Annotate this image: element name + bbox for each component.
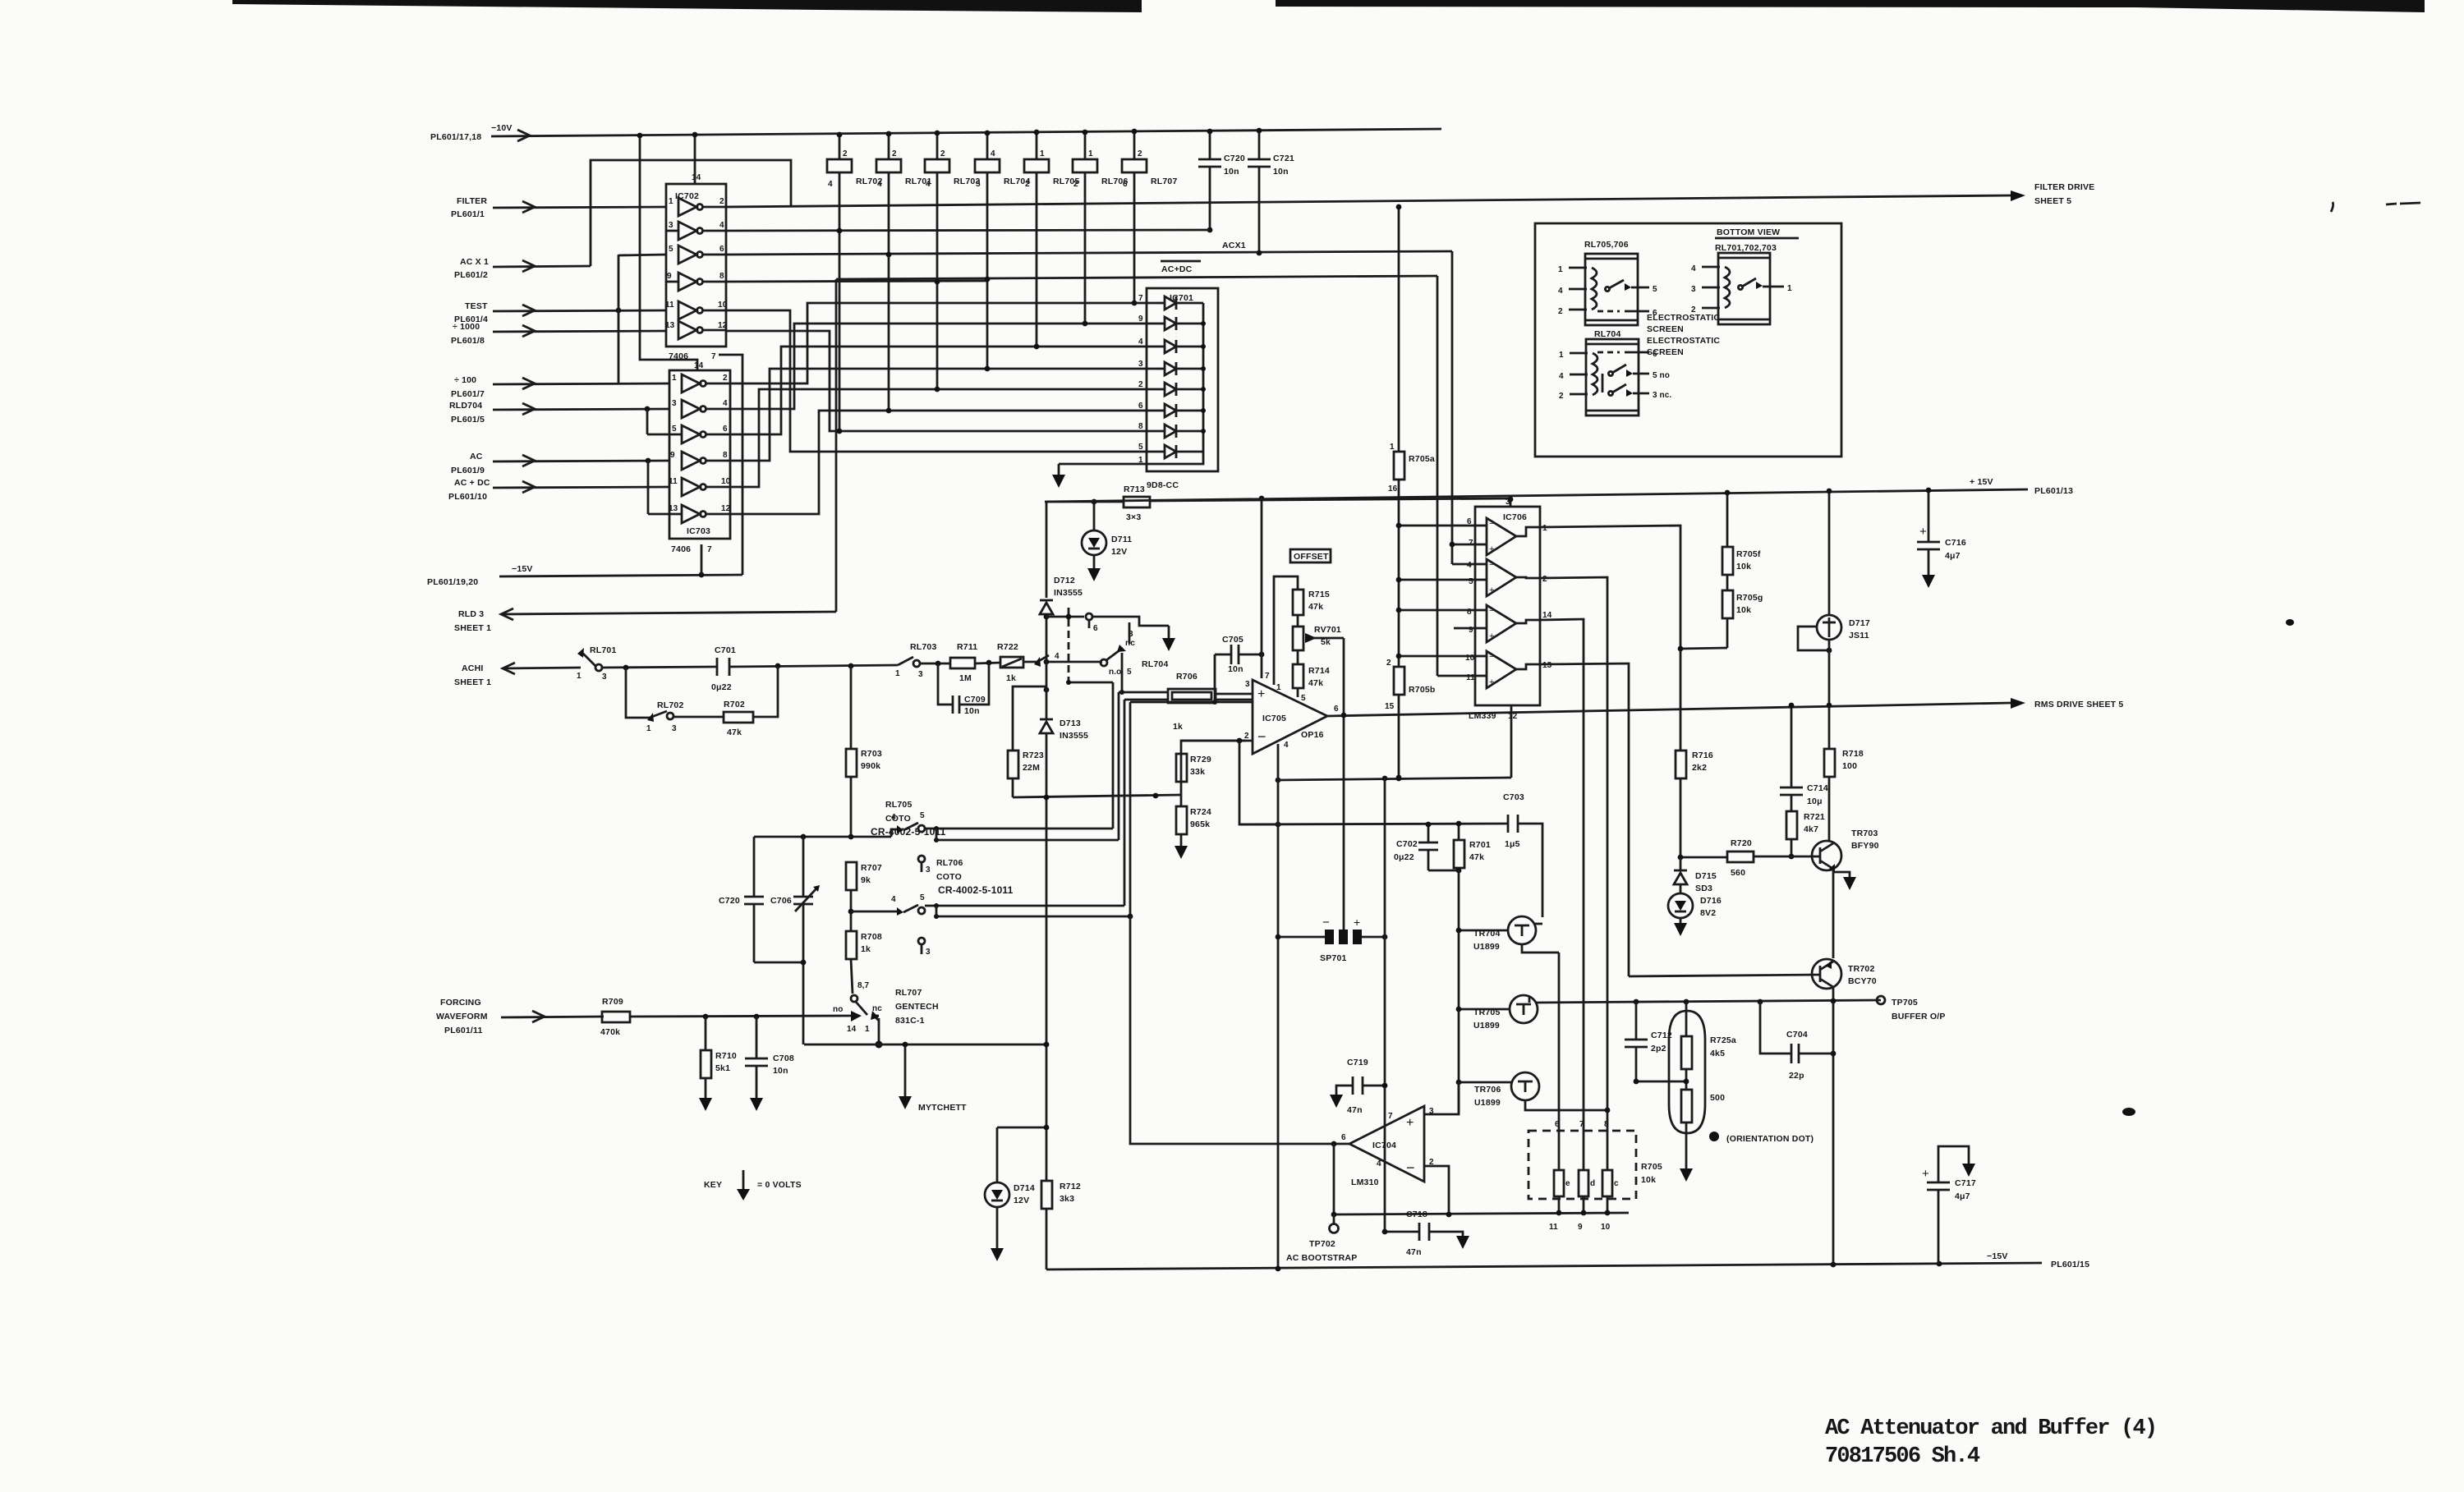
svg-text:7: 7 [707,545,712,554]
wire IC703 pin7 drop [701,544,703,575]
ground arrow TR706 source line [1605,1108,1611,1113]
svg-text:OFFSET: OFFSET [1294,552,1329,562]
node FILTER DRIVE SHEET 5 [2034,182,2094,206]
svg-text:14: 14 [694,361,704,370]
svg-text:1k: 1k [1173,722,1183,732]
relay switch RL706 [851,893,1130,957]
svg-text:TR706: TR706 [1474,1085,1501,1095]
svg-text:4: 4 [991,149,995,158]
wire IC706 out1 drop [1540,526,1680,751]
wire IC703 out12 staircase [730,411,1156,514]
svg-text:TP702: TP702 [1309,1239,1335,1249]
node label ELECTROSTATIC SCREEN x2 [1647,313,1720,357]
svg-text:5: 5 [672,425,677,434]
svg-text:CR-4002-5-1011: CR-4002-5-1011 [938,884,1014,896]
inverter IC703a [672,374,730,393]
svg-text:D715: D715 [1695,871,1717,881]
svg-text:12V: 12V [1014,1196,1029,1205]
svg-text:47k: 47k [1469,852,1484,862]
svg-text:12: 12 [718,321,728,330]
svg-text:7: 7 [1469,539,1473,548]
wire bus B1 (IC702 out4 to C720, RL702) [726,230,1210,231]
svg-text:7: 7 [1265,672,1270,681]
node label BOTTOM VIEW [1715,227,1799,253]
switch RL703 [895,642,937,679]
inverter IC702e [665,301,728,319]
wire ACHI line [503,668,581,668]
resistor R720 560 [1678,838,1811,878]
transistor TR702 BCY70 [1629,959,1877,989]
capacitor C703 1u5 [1503,792,1542,917]
resistor R705d [1579,1131,1595,1215]
arrowhead -10V [517,130,530,141]
capacitor C701 [711,645,736,692]
junction vertical main node [1044,659,1050,665]
node title block text [1825,1416,2156,1469]
svg-text:R720: R720 [1731,838,1752,848]
svg-text:C703: C703 [1503,792,1524,802]
wire +15V feed left segment [1046,501,1124,503]
junction RL707 pole node [876,1041,883,1049]
svg-text:PL601/10: PL601/10 [448,492,487,502]
switch RL704 [1101,622,1169,677]
svg-text:8: 8 [1138,422,1143,431]
svg-text:RL705,706: RL705,706 [1584,240,1629,250]
svg-text:10k: 10k [1641,1175,1656,1185]
svg-text:RL702: RL702 [657,700,684,710]
svg-text:TR705: TR705 [1473,1008,1501,1017]
test point TP702 AC BOOTSTRAP [1286,1214,1357,1263]
svg-text:1k: 1k [1006,673,1016,683]
wire twin pair into R706 [1119,691,1168,694]
svg-text:MYTCHETT: MYTCHETT [918,1103,967,1113]
wire IC704 pin6 line [1130,1141,1349,1144]
svg-text:5 no: 5 no [1653,371,1670,380]
svg-text:22M: 22M [1023,763,1040,773]
svg-text:+: + [1489,631,1494,641]
fet TR705 U1899 [1459,995,1538,1031]
svg-text:AC: AC [470,452,483,461]
svg-text:33k: 33k [1190,767,1205,777]
junction C708 tap [754,1014,760,1020]
wire RLD3 line [501,612,836,614]
resistor R702 [673,666,778,737]
svg-text:13: 13 [665,321,675,330]
junction R710 tap [703,1014,709,1020]
svg-text:6: 6 [723,425,728,434]
wire TR702 emitter down to -15V rail [1832,987,1835,1265]
resistor R722 (fusible) [975,642,1037,683]
wire TEST input [493,310,666,311]
resistor R707 9k [846,862,882,931]
svg-text:R705f: R705f [1736,549,1761,559]
wire IC703 out2 staircase [730,303,1156,383]
svg-text:47n: 47n [1406,1247,1422,1257]
wire RL704 actuation dash line [1068,608,1070,682]
junction RL702 branch left [623,665,629,671]
svg-text:ACHI: ACHI [462,663,483,673]
svg-text:= 0 VOLTS: = 0 VOLTS [757,1180,802,1190]
wire feedback node y1004 to C703/C702 [1239,824,1508,824]
arrowhead RMS DRIVE [2011,698,2025,709]
svg-text:c: c [1614,1179,1619,1188]
svg-text:÷ 100: ÷ 100 [454,375,476,385]
relay package RL701,702,703 detail [1691,253,1792,324]
wire IC705 pin2 input [1181,740,1253,742]
svg-text:9: 9 [670,451,675,460]
wire D714 top link [997,1127,1046,1129]
relay coil RL705 [1024,130,1080,347]
svg-text:U1899: U1899 [1473,942,1500,952]
svg-text:TP705: TP705 [1892,998,1918,1008]
svg-text:RL701,702,703: RL701,702,703 [1715,243,1777,253]
svg-text:+: + [1406,1116,1414,1130]
svg-text:7: 7 [1138,294,1143,303]
relay coil RL701 [876,131,932,411]
wire C702/R701 bottom join [1428,870,1459,872]
node RLD704 PL601/5 input [449,401,485,425]
svg-text:3: 3 [602,673,607,682]
svg-text:9k: 9k [861,875,871,885]
svg-text:RMS DRIVE SHEET 5: RMS DRIVE SHEET 5 [2034,700,2123,709]
svg-text:R724: R724 [1190,807,1211,817]
junction RL702 branch right [775,663,781,669]
resistor R715 47k [1293,590,1330,627]
diode IC701-7 pin8 [1138,422,1206,438]
svg-text:R725a: R725a [1710,1035,1736,1045]
wire C720 bottom link [754,962,803,964]
svg-text:2: 2 [892,149,897,158]
svg-text:1: 1 [1390,443,1395,452]
arrowhead RLD704 [522,403,535,415]
svg-text:2: 2 [843,149,848,158]
wire FORCING line [501,1017,604,1017]
svg-text:2: 2 [1244,732,1249,741]
svg-text:11: 11 [669,477,678,486]
svg-text:3: 3 [1245,680,1250,689]
node ACHI SHEET 1 [454,663,491,687]
switch RL701 [577,645,617,682]
resistor R725 500 [1680,1090,1725,1182]
svg-text:4: 4 [1691,264,1696,273]
svg-text:PL601/19,20: PL601/19,20 [427,577,478,587]
svg-text:R712: R712 [1060,1182,1081,1191]
svg-text:+: + [1354,916,1360,929]
svg-text:RL706: RL706 [936,858,963,868]
svg-text:47k: 47k [1308,602,1323,612]
svg-text:R729: R729 [1190,755,1211,764]
resistor R711 [920,642,977,683]
junction IC704 output node [1331,1141,1337,1147]
capacitor C712 2p2 [1625,1002,1672,1081]
scan artifact top bar right [1276,0,2425,12]
svg-text:R718: R718 [1842,749,1864,759]
wire twin pair R706 to IC705 + [1216,693,1253,696]
comparator IC706a [1467,517,1547,555]
svg-text:−: − [1489,606,1494,616]
inverter IC703b [672,399,730,418]
wire TR703 emitter to TR702 collector [1832,869,1835,958]
svg-text:9: 9 [1138,314,1143,324]
svg-text:7406: 7406 [671,544,691,554]
svg-text:1: 1 [1542,524,1547,533]
svg-text:6: 6 [1341,1133,1346,1142]
junction feedback node at C703 left [1456,821,1462,827]
wire SP701 right to C719 column [1362,936,1385,939]
arrowhead AC+DC [522,481,535,493]
arrowhead AC X 1 [522,260,535,272]
svg-text:R705g: R705g [1736,593,1763,603]
svg-text:SHEET 1: SHEET 1 [454,677,491,687]
svg-text:FILTER DRIVE: FILTER DRIVE [2034,182,2094,192]
svg-text:PL601/1: PL601/1 [451,209,485,219]
wire TEST branch vertical [618,255,620,383]
wire IC705 output to RMS DRIVE [1327,703,2011,716]
wire RL704 no5 drop (twin feed) [1121,653,1124,692]
svg-text:+: + [1257,687,1265,701]
wire IC703 out6 staircase [730,347,1156,434]
svg-text:IC706: IC706 [1503,512,1527,522]
arrowhead divide-100 [522,378,535,389]
svg-text:10k: 10k [1736,562,1751,572]
resistor R713 3k3 (in +15V feed) [1124,484,1150,522]
svg-text:10: 10 [721,477,731,486]
junction -15V to IC703 pin7 [699,572,705,578]
diode IC701-1 pin7 [1138,294,1203,310]
junction AC branch [646,458,651,464]
svg-text:U1899: U1899 [1474,1098,1501,1108]
node +15V PL601/13 [1970,477,2073,496]
wire IC704 pin2 feedback loop [1424,1166,1449,1214]
svg-text:BOTTOM VIEW: BOTTOM VIEW [1717,227,1780,237]
svg-text:47k: 47k [727,728,742,737]
svg-text:R715: R715 [1308,590,1330,599]
svg-text:SCREEN: SCREEN [1647,324,1684,334]
node RLD 3 SHEET 1 output [454,609,491,633]
junction D711 tap [1092,499,1097,505]
svg-text:R705a: R705a [1409,454,1435,464]
svg-text:5: 5 [1138,443,1143,452]
node AC X 1 PL601/2 input [454,257,489,280]
svg-text:R721: R721 [1804,812,1825,822]
svg-text:4: 4 [1284,741,1289,750]
wire RLD704 to pin5 [646,409,649,434]
wire IC702 pin14 drop from -10V rail [694,135,696,184]
svg-text:(ORIENTATION DOT): (ORIENTATION DOT) [1726,1134,1814,1144]
svg-text:16: 16 [1388,484,1398,494]
wire IC703 out8 staircase [730,369,1156,461]
svg-text:FORCING: FORCING [440,998,481,1008]
inverter IC703e [669,477,731,496]
svg-text:R701: R701 [1469,840,1491,850]
wire RV701 wiper column down through IC705 output to SP701 [1343,638,1345,930]
svg-text:PL601/17,18: PL601/17,18 [430,132,481,142]
wire +15V feed right of R713 [1150,498,1510,501]
svg-text:C719: C719 [1347,1058,1368,1067]
junction R703 tap [848,663,854,669]
svg-text:6: 6 [1334,705,1339,714]
junction TEST branch [616,308,622,314]
svg-text:PL601/8: PL601/8 [451,336,485,346]
wire C701 to RL703 [729,665,898,667]
resistor R729 33k [1176,741,1246,795]
capacitor C719 47n [1330,778,1387,1232]
node -15V PL601/15 [1987,1251,2089,1269]
svg-text:7: 7 [1579,1120,1584,1129]
svg-text:5: 5 [976,180,981,189]
relay coil RL706 [1073,130,1129,324]
svg-text:−: − [1322,916,1330,930]
wire FILTER DRIVE long line [726,195,2011,207]
wire IC702 pin7 riser [719,355,742,575]
svg-text:2p2: 2p2 [1651,1044,1666,1054]
svg-text:1: 1 [1276,683,1281,692]
comparator IC706b [1467,559,1547,596]
wire divide-1000 input [493,331,666,332]
svg-text:−10V: −10V [491,123,513,133]
capacitor C709 (parallel R711) [938,663,989,716]
svg-text:9: 9 [1578,1223,1583,1232]
capacitor C717 4u7 [1922,1146,1976,1264]
resistor R721 4k7 [1786,811,1825,859]
svg-text:C720: C720 [719,896,740,906]
junction dots on -10V rail at IC drops [637,133,643,139]
svg-text:10: 10 [718,301,728,310]
svg-text:1: 1 [895,669,900,678]
diode array IC701 9D8-CC [1147,288,1218,490]
scan mark near right margin [2331,202,2333,212]
diode D716 zener 8V2 [1668,884,1722,936]
svg-text:10n: 10n [1224,167,1239,177]
svg-text:5: 5 [1653,285,1657,294]
diode D713 IN3555 [1040,662,1088,1269]
comparator IC706d [1465,651,1552,688]
wire AC branch to pin13 [647,461,650,514]
resistor R705f 10k [1722,490,1761,575]
svg-text:7: 7 [711,352,716,361]
wire SP701 left to vertical [1278,936,1325,939]
arrowhead AC [522,455,535,466]
node FILTER PL601/1 input [451,196,487,219]
wire IC706 out13 drop to TR702 base [1540,663,1629,976]
relay coil RL707 [1122,129,1178,303]
svg-text:10n: 10n [1273,167,1289,177]
wire third input line under R706 [1130,701,1252,704]
resistor R712 3k3 [1041,1181,1081,1209]
svg-text:TR702: TR702 [1848,964,1875,974]
svg-text:1: 1 [1558,265,1563,274]
node label RL706 COTO [936,858,1014,896]
diode D715 SD3 [1674,857,1717,893]
wire C709 bottom loop to R723 branch [1013,686,1046,705]
wire C720/C706 top link [754,836,851,838]
svg-text:−: − [1489,652,1494,662]
svg-text:5k1: 5k1 [715,1063,730,1073]
wire pole node to R712 column [879,1044,1046,1046]
svg-text:PL601/15: PL601/15 [2051,1260,2089,1269]
svg-text:+: + [1922,1167,1929,1181]
wire twin verticals to RL706 contacts [1124,700,1126,906]
svg-text:C705: C705 [1222,635,1243,645]
transistor TR703 BFY90 [1811,829,1879,890]
svg-text:2: 2 [1691,305,1696,314]
resistor R709 [600,997,630,1037]
resistor R703 990k [846,666,882,837]
svg-text:d: d [1590,1179,1595,1188]
svg-text:−: − [1406,1159,1415,1176]
svg-text:47n: 47n [1347,1105,1363,1115]
svg-text:C720: C720 [1224,154,1245,163]
node label OFFSET [1290,549,1331,562]
wire R709 to RL707 [630,1016,851,1017]
diode IC701-4 pin3 [1138,360,1206,375]
svg-text:C708: C708 [773,1054,794,1063]
capacitor C720 (rail decoupling) [1198,129,1245,233]
svg-text:AC+DC: AC+DC [1161,264,1193,274]
wire RLD704 input [493,409,669,410]
resistor R710 5k1 [699,1017,737,1111]
arrowhead divide-1000 [522,325,535,337]
diode D711 zener 12V [1082,502,1132,581]
wire IC706 out14 drop [1540,619,1584,1131]
svg-text:5: 5 [920,893,925,902]
svg-text:4μ7: 4μ7 [1945,551,1961,561]
svg-text:5: 5 [1301,694,1306,703]
svg-text:AC Attenuator and Buffer (4): AC Attenuator and Buffer (4) [1825,1416,2156,1441]
junction RLD704 branch [645,406,650,412]
current regulator diode D717 JS11 [1798,489,1870,705]
svg-text:ELECTROSTATIC: ELECTROSTATIC [1647,313,1720,323]
node divide-100 PL601/7 input [451,375,485,399]
diode D714 zener 12V [985,1127,1035,1261]
svg-text:990k: 990k [861,761,880,771]
svg-text:8: 8 [723,451,728,460]
wire TP702 column to bus [1333,1144,1335,1214]
svg-text:3: 3 [926,948,931,957]
svg-text:R722: R722 [997,642,1018,652]
svg-text:2: 2 [719,197,724,206]
wire IC706 pin7/pin4 stubs from ACX1 column [1450,542,1475,628]
svg-text:6: 6 [719,245,724,254]
svg-text:3: 3 [1138,360,1143,369]
node AC PL601/9 input [451,452,485,475]
resistor R705a (pack 1-16) [1388,204,1435,667]
svg-text:IC703: IC703 [687,526,710,536]
svg-text:965k: 965k [1190,819,1210,829]
svg-text:PL601/2: PL601/2 [454,270,488,280]
svg-text:LM339: LM339 [1469,711,1496,721]
svg-text:3: 3 [926,865,931,875]
svg-text:10n: 10n [964,706,980,716]
switch contact 6 (test relay) [1044,613,1175,651]
svg-text:−: − [1489,519,1494,529]
svg-text:D712: D712 [1054,576,1075,585]
svg-text:LM310: LM310 [1351,1178,1379,1187]
inverter IC702b [666,221,726,240]
svg-text:4: 4 [877,180,882,189]
svg-text:4: 4 [891,813,896,822]
inverter IC703d [670,451,730,470]
thermistor network R725a/500 oval [1669,1011,1705,1133]
svg-text:R708: R708 [861,932,882,942]
svg-text:AC + DC: AC + DC [454,478,490,488]
svg-text:3: 3 [672,399,677,408]
resistor R725a 4k5 [1681,1002,1736,1090]
switch RL702 (bypass branch) [626,668,684,733]
svg-text:no: no [833,1005,843,1014]
wire RLD3 riser [835,279,838,612]
switch contact 4 after R722 [1034,652,1060,667]
